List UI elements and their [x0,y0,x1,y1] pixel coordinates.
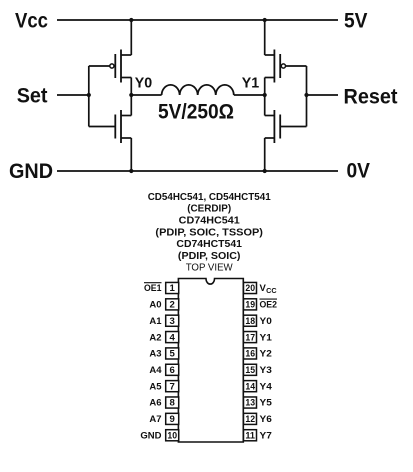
svg-text:Y7: Y7 [260,430,272,441]
svg-text:7: 7 [170,381,175,392]
svg-text:17: 17 [245,332,255,343]
U1 pin 19 label OE2 [260,299,278,311]
svg-text:GND: GND [140,430,161,441]
svg-text:Y1: Y1 [242,76,259,92]
U1 pin 9 box [166,413,179,424]
svg-text:Y1: Y1 [260,332,273,343]
svg-text:A5: A5 [149,381,162,392]
svg-text:Vcc: Vcc [15,8,48,32]
U1 pin 3 box [166,315,179,326]
U1 pin 4 box [166,332,179,343]
transistor Q1 PMOS [110,50,132,83]
junction Vcc left [129,18,133,22]
junction Vcc right [263,18,267,22]
U1 pin 20 label VCC [260,283,277,295]
svg-text:8: 8 [170,398,176,409]
wire GND rail [57,170,338,172]
U1 pin 15 box [244,364,257,375]
wire Q2 source to GND [130,138,132,171]
svg-text:CD74HC541: CD74HC541 [179,216,240,227]
svg-text:Reset: Reset [344,85,398,109]
wire Vcc to Q1 source [130,20,132,55]
svg-text:GND: GND [9,159,53,183]
wire Q1 drain to Y0 node to Q2 drain [130,78,132,116]
svg-text:5: 5 [170,349,176,360]
junction Reset gate node [304,93,308,97]
svg-text:16: 16 [245,349,255,360]
svg-text:A3: A3 [149,349,161,360]
U1 pin 6 box [166,364,179,375]
svg-text:A4: A4 [149,365,162,376]
svg-text:CD54HC541, CD54HCT541: CD54HC541, CD54HCT541 [148,192,271,203]
U1 pin 5 box [166,348,179,359]
transistor Q2 NMOS [115,110,131,143]
svg-text:12: 12 [245,414,255,425]
svg-text:15: 15 [245,365,255,376]
inductor L1 [162,85,234,95]
svg-text:Y0: Y0 [135,76,152,92]
wire Q3 gate lead [286,65,307,67]
svg-text:Y4: Y4 [260,381,273,392]
svg-text:2: 2 [170,300,175,311]
svg-text:14: 14 [245,381,255,392]
U1 pin 14 box [244,381,257,392]
svg-text:TOP VIEW: TOP VIEW [186,263,233,274]
svg-text:3: 3 [170,316,175,327]
junction node Y0 [129,93,133,97]
svg-text:13: 13 [245,398,255,409]
wire Vcc rail [57,19,338,21]
U1 pin 19 box [244,299,257,310]
svg-text:Set: Set [17,83,48,107]
svg-text:0V: 0V [347,159,371,183]
U1 pin 20 box [244,282,257,293]
U1 pin 10 box [166,430,179,441]
svg-text:9: 9 [170,414,175,425]
wire Q3 drain to Y1 node to Q4 drain [264,78,266,116]
U1 pin 16 box [244,348,257,359]
junction Set gate node [87,93,91,97]
svg-text:CC: CC [266,288,277,295]
svg-text:A7: A7 [149,414,161,425]
svg-text:18: 18 [245,316,255,327]
svg-text:OE1: OE1 [144,283,162,294]
svg-text:A6: A6 [149,398,161,409]
svg-text:1: 1 [170,283,176,294]
svg-text:A2: A2 [149,332,161,343]
svg-text:10: 10 [167,430,177,441]
svg-text:20: 20 [245,283,255,294]
op-amp U1 package body [178,279,243,443]
svg-text:Y6: Y6 [260,414,272,425]
transistor Q3 PMOS [265,50,286,83]
U1 pin 11 box [244,430,257,441]
U1 pin 12 box [244,413,257,424]
svg-text:Y5: Y5 [260,398,273,409]
junction GND right [263,169,267,173]
wire left gate bus [88,66,90,127]
svg-text:Y0: Y0 [260,316,272,327]
svg-text:(PDIP, SOIC): (PDIP, SOIC) [178,251,241,262]
junction GND left [129,169,133,173]
svg-text:5V: 5V [344,8,368,32]
U1 pin 17 box [244,332,257,343]
U1 pin 8 box [166,397,179,408]
svg-text:5V/250Ω: 5V/250Ω [158,100,234,124]
svg-text:OE2: OE2 [260,300,278,311]
U1 pin 1 label OE1 [144,283,162,295]
wire Set input [57,94,89,96]
wire right gate bus [306,66,308,127]
svg-text:(CERDIP): (CERDIP) [187,204,231,215]
wire Reset input [307,94,339,96]
U1 pin 2 box [166,299,179,310]
svg-text:6: 6 [170,365,175,376]
wire Q4 gate lead [280,126,306,128]
svg-text:4: 4 [170,332,176,343]
svg-text:A1: A1 [149,316,162,327]
U1 pin 1 box [166,282,179,293]
wire Q4 source to GND [264,138,266,171]
junction node Y1 [263,93,267,97]
svg-text:CD74HCT541: CD74HCT541 [176,239,242,250]
svg-text:19: 19 [245,300,255,311]
wire inductor to Y1 [234,94,265,96]
transistor Q4 NMOS [265,110,281,143]
wire Q1 gate lead [89,65,110,67]
U1 pin 7 box [166,381,179,392]
svg-text:Y3: Y3 [260,365,272,376]
U1 pin 18 box [244,315,257,326]
wire Q2 gate lead [89,126,115,128]
U1 pin 13 box [244,397,257,408]
svg-text:A0: A0 [149,300,161,311]
wire Y0 to inductor [131,94,161,96]
svg-text:Y2: Y2 [260,349,272,360]
svg-text:(PDIP, SOIC, TSSOP): (PDIP, SOIC, TSSOP) [155,227,263,238]
wire Vcc to Q3 source [264,20,266,55]
svg-text:11: 11 [245,430,255,441]
